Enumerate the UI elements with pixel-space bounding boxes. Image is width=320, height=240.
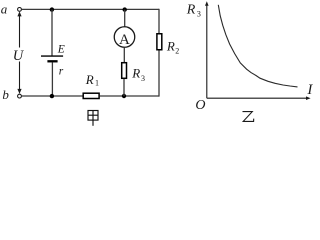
resistor R2 box [157,34,162,50]
voltage arrow U upper [17,11,21,47]
svg-text:A: A [119,32,130,48]
svg-text:2: 2 [175,47,179,56]
wire battery lower [51,62,53,96]
svg-text:1: 1 [95,79,99,88]
svg-text:b: b [2,87,9,102]
resistor R3 box [122,63,127,79]
svg-text:U: U [13,48,25,64]
svg-text:r: r [59,66,64,78]
graph y-axis [205,1,209,98]
caption yi (乙) [243,112,254,122]
svg-text:I: I [306,82,313,98]
svg-text:R: R [166,38,175,53]
node b terminal [18,94,22,98]
svg-text:R: R [186,2,196,17]
junction ammeter top [123,7,127,11]
ammeter A [114,27,135,48]
junction battery top [50,7,54,11]
battery E short plate [47,60,57,62]
wire battery upper [51,10,53,56]
wire top horizontal [22,8,159,10]
junction R3 bottom [122,94,126,98]
wire right bottom [158,51,160,97]
caption jia (甲) [88,111,98,126]
svg-text:R: R [85,72,94,87]
svg-text:O: O [195,98,205,113]
graph x-axis [207,96,311,100]
node a terminal [18,7,22,11]
svg-text:R: R [131,66,140,81]
svg-text:E: E [57,43,65,55]
svg-text:3: 3 [197,10,201,19]
wire bottom left [22,95,83,97]
wire ammeter to R3 [123,48,125,62]
graph curve [218,5,297,87]
voltage arrow U lower [17,62,21,94]
wire bottom middle [100,95,160,97]
svg-text:3: 3 [141,74,145,83]
battery E long plate [41,55,63,57]
wire right top corner [158,9,160,33]
svg-text:a: a [1,2,8,17]
resistor R1 box [83,93,99,98]
wire R3 bottom [123,79,125,96]
wire ammeter upper [124,10,126,27]
junction battery bottom [50,94,54,98]
